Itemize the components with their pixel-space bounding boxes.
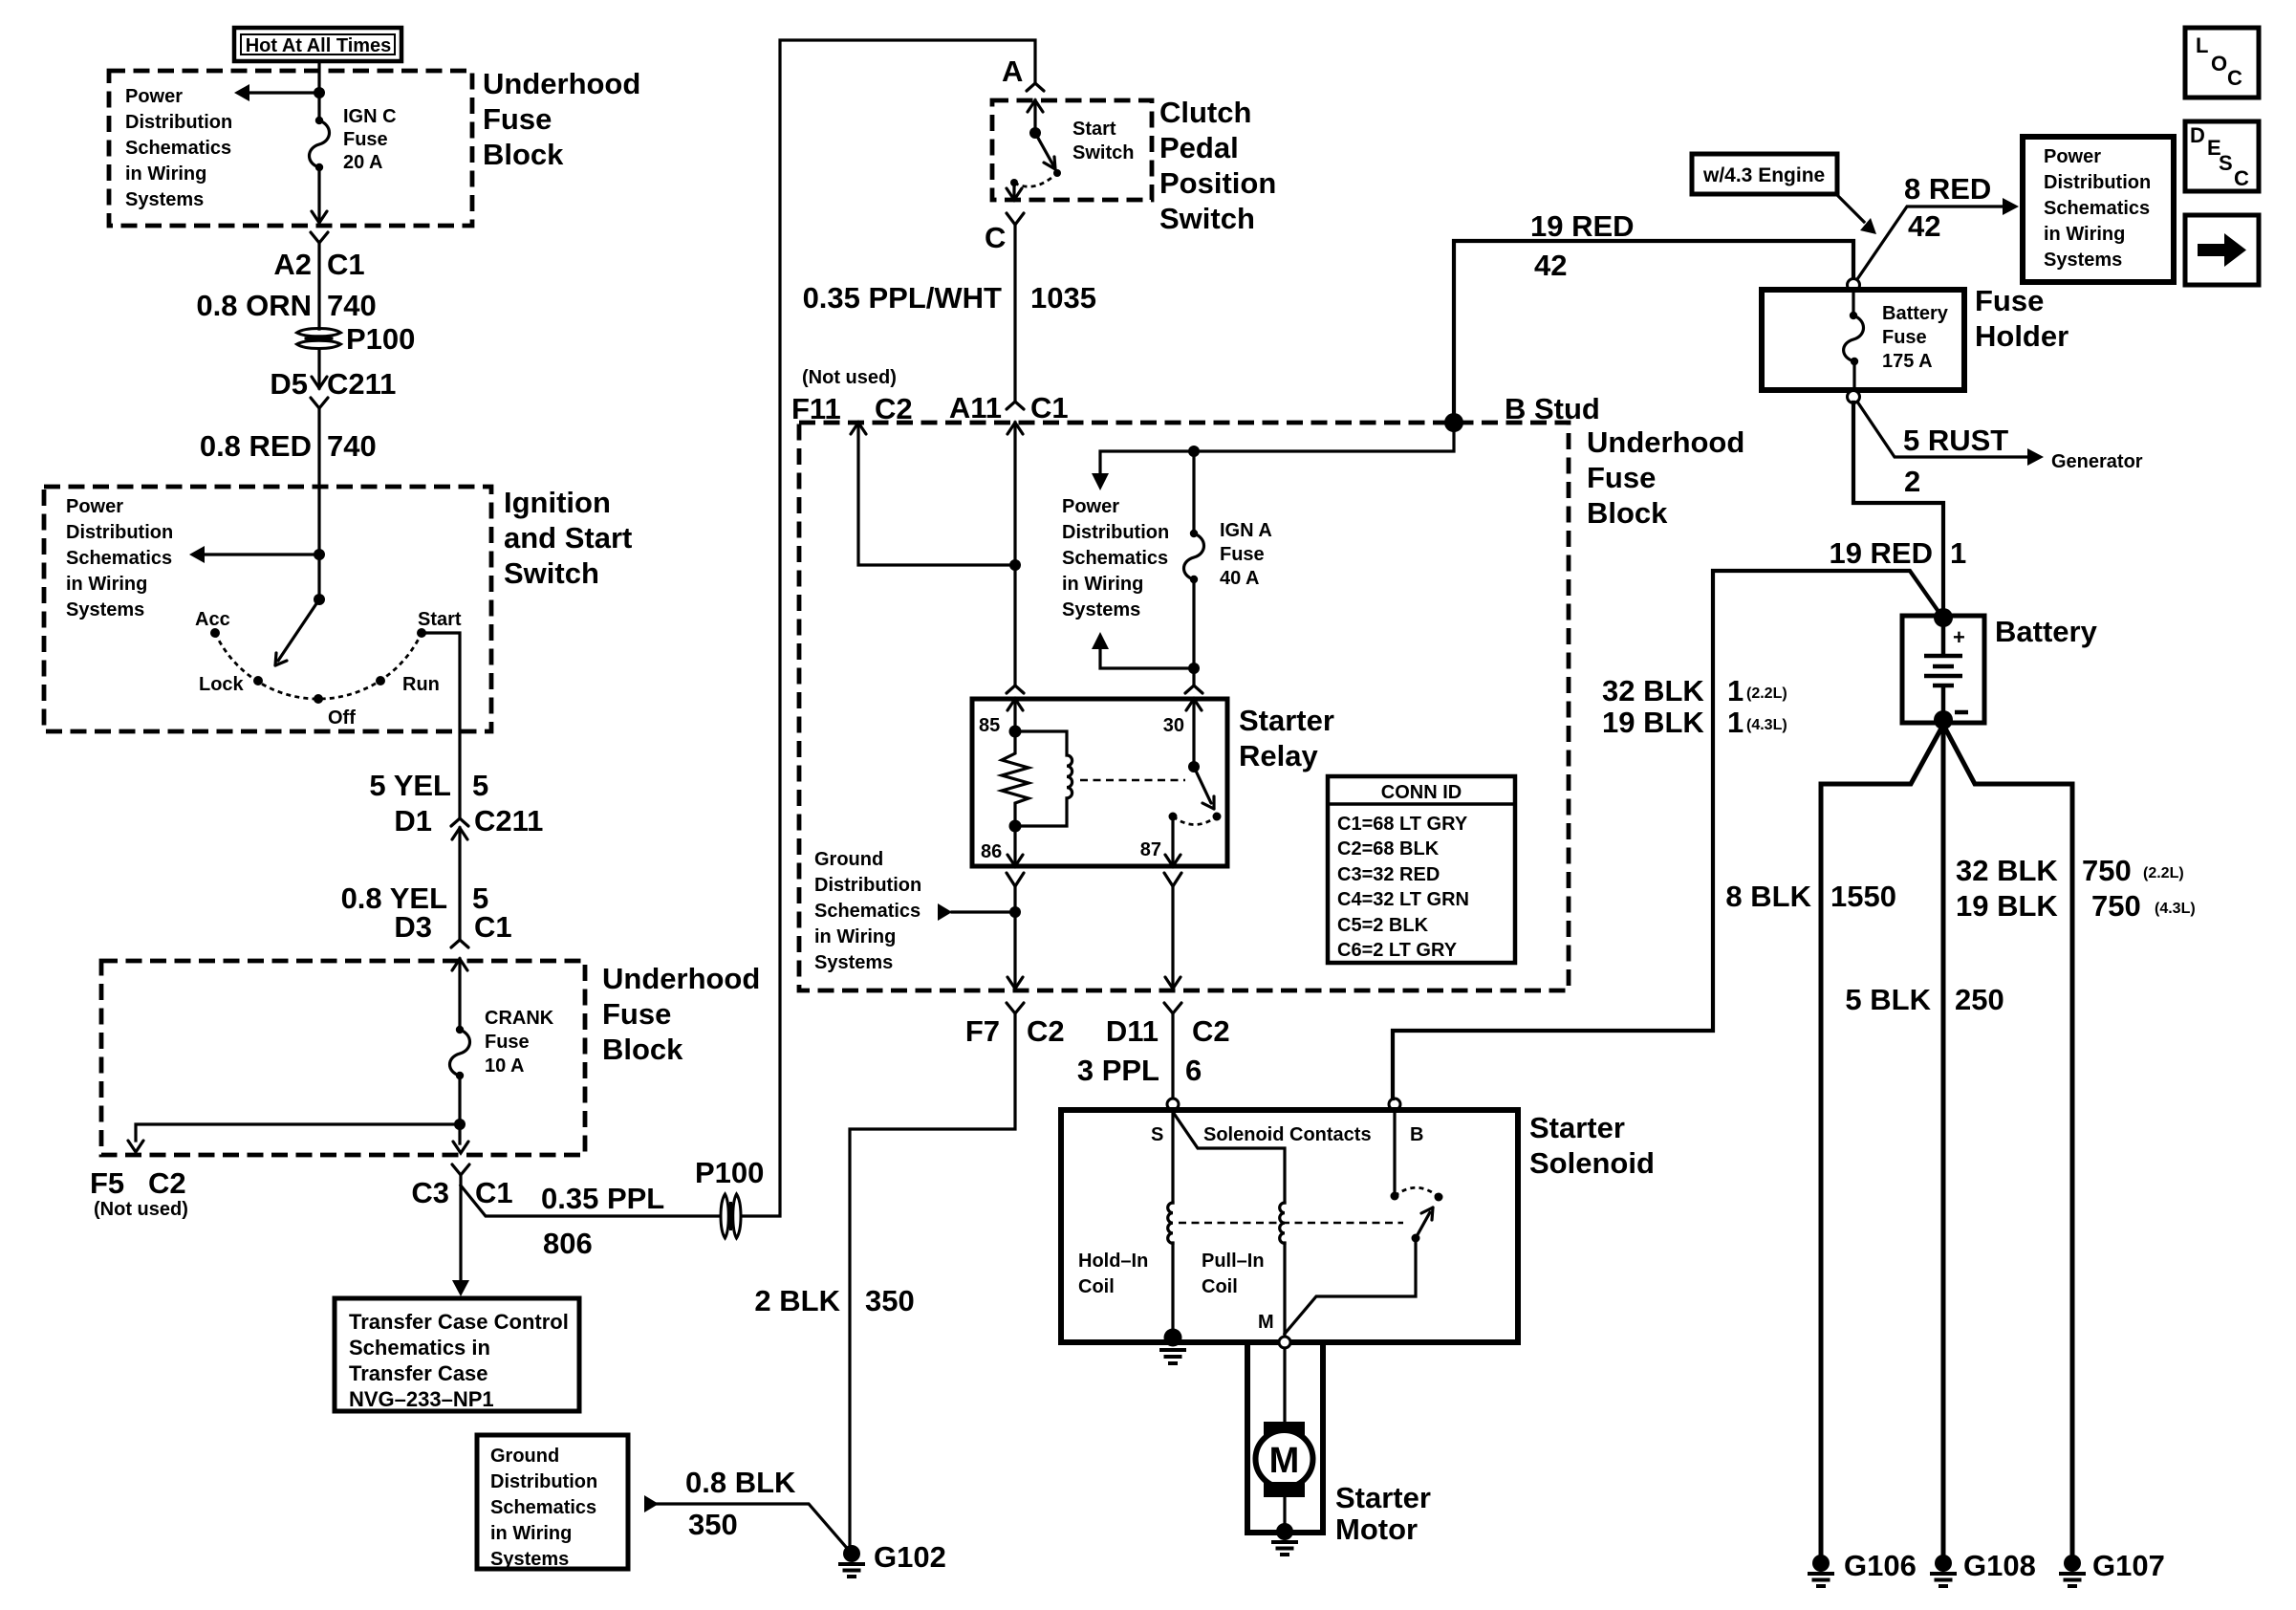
- svg-text:CRANK: CRANK: [485, 1008, 554, 1029]
- ground node starter motor: [1271, 1523, 1298, 1555]
- label 19 RED | 1: [1829, 536, 1966, 570]
- Ground Distribution Schematics note (main box): [814, 849, 921, 973]
- svg-text:Underhood: Underhood: [602, 962, 760, 995]
- wire fuse holder to battery positive: [1853, 402, 1943, 612]
- wire to power distribution arrow: [246, 91, 319, 94]
- svg-text:G106: G106: [1844, 1549, 1917, 1582]
- svg-text:32 BLK: 32 BLK: [1956, 854, 2058, 887]
- svg-text:Fuse: Fuse: [602, 997, 671, 1031]
- terminal fuse holder bottom: [1848, 391, 1860, 403]
- Underhood Fuse Block title: [483, 67, 640, 171]
- wire F11 branch: [858, 423, 1015, 565]
- node junction PDS up arrow: [1188, 663, 1200, 674]
- svg-text:Schematics: Schematics: [1062, 548, 1168, 569]
- svg-text:Solenoid: Solenoid: [1529, 1146, 1655, 1180]
- wire fuse to bottom terminal: [1852, 361, 1855, 390]
- svg-text:19 RED: 19 RED: [1530, 209, 1635, 243]
- wire junction to up arrow: [1100, 648, 1194, 668]
- wire battery negative to G106: [1821, 725, 1943, 1558]
- motor brush top: [1264, 1422, 1305, 1437]
- svg-text:42: 42: [1534, 249, 1567, 282]
- svg-text:C3=32 RED: C3=32 RED: [1337, 864, 1440, 885]
- start switch contact left: [1010, 179, 1018, 186]
- label Battery Fuse 175 A: [1882, 303, 1949, 372]
- fuse Battery 175 A: [1844, 312, 1864, 365]
- starter solenoid box: [1061, 1110, 1518, 1342]
- svg-text:(2.2L): (2.2L): [1746, 685, 1787, 702]
- svg-text:Underhood: Underhood: [1587, 425, 1744, 459]
- label IGN A Fuse 40 A: [1220, 520, 1272, 589]
- svg-text:C: C: [985, 221, 1006, 254]
- svg-text:and Start: and Start: [504, 521, 632, 555]
- power distribution schematics box (right): [2023, 137, 2174, 282]
- label 19 RED / 42: [1530, 209, 1635, 282]
- wire pin87 to box edge: [1171, 886, 1174, 986]
- label F7 | C2: [965, 1014, 1065, 1048]
- svg-text:Schematics in: Schematics in: [349, 1336, 490, 1360]
- label 0.8 RED | 740: [200, 429, 377, 463]
- svg-text:Holder: Holder: [1975, 319, 2069, 353]
- label A11 | C1: [949, 391, 1069, 424]
- ignition switch rotor arm with arrowhead: [275, 599, 319, 665]
- label box w/4.3 Engine: [1692, 154, 1837, 194]
- arrowhead 8 RED: [2003, 198, 2019, 215]
- switch contact Start: [417, 628, 426, 638]
- svg-text:Transfer Case: Transfer Case: [349, 1361, 488, 1385]
- label 0.35 PPL/WHT | 1035: [803, 281, 1096, 315]
- svg-text:Underhood: Underhood: [483, 67, 640, 100]
- arrowhead generator: [2027, 448, 2044, 466]
- svg-text:B Stud: B Stud: [1505, 392, 1600, 425]
- arrowhead to transfer case box: [452, 1280, 469, 1296]
- label Hold-In Coil: [1078, 1251, 1148, 1297]
- connector Y below relay pin 86: [1007, 873, 1024, 886]
- relay switch pivot: [1188, 761, 1200, 772]
- svg-text:(Not used): (Not used): [802, 367, 897, 388]
- svg-text:19 BLK: 19 BLK: [1956, 889, 2058, 923]
- underhood fuse block box 2 (dashed, CRANK): [101, 961, 585, 1155]
- start switch arm with arrowhead: [1035, 133, 1055, 169]
- wire contact to C exit (down arrow at edge): [1012, 183, 1015, 197]
- ground G102: [838, 1545, 865, 1577]
- svg-text:C211: C211: [474, 804, 543, 838]
- hold-in coil: [1168, 1203, 1173, 1243]
- solenoid contact left: [1391, 1192, 1399, 1201]
- node junction to power distribution arrow: [314, 87, 325, 98]
- connector A2/C1 at box edge (down arrow + Y): [311, 211, 328, 243]
- svg-text:Run: Run: [402, 674, 440, 695]
- svg-text:Distribution: Distribution: [2044, 172, 2151, 193]
- svg-text:C5=2 BLK: C5=2 BLK: [1337, 915, 1429, 936]
- svg-text:Clutch: Clutch: [1159, 96, 1251, 129]
- svg-text:Coil: Coil: [1078, 1276, 1115, 1297]
- svg-text:Ground: Ground: [490, 1446, 559, 1467]
- pin 30 arrow (up) and wire: [1186, 699, 1202, 710]
- svg-text:Pull–In: Pull–In: [1202, 1251, 1265, 1272]
- Power Distribution Schematics note (ignition): [66, 496, 173, 620]
- svg-text:42: 42: [1908, 209, 1940, 243]
- label 5 YEL | 5: [369, 769, 488, 802]
- svg-text:in Wiring: in Wiring: [1062, 574, 1143, 595]
- Underhood Fuse Block title 2: [602, 962, 760, 1066]
- wire splice up the left riser to clutch switch: [742, 40, 1035, 1216]
- svg-text:Power: Power: [1062, 496, 1119, 517]
- fuse holder box: [1762, 290, 1964, 390]
- ignition switch rotor pivot: [314, 594, 325, 605]
- svg-text:Distribution: Distribution: [814, 875, 921, 896]
- svg-text:Solenoid Contacts: Solenoid Contacts: [1203, 1124, 1372, 1145]
- svg-text:Distribution: Distribution: [1062, 522, 1169, 543]
- label 2 BLK | 350: [754, 1284, 914, 1317]
- Underhood Fuse Block title 3: [1587, 425, 1744, 530]
- svg-text:87: 87: [1140, 839, 1161, 860]
- svg-text:Systems: Systems: [66, 599, 144, 620]
- pull-in coil: [1280, 1203, 1285, 1243]
- svg-text:D1: D1: [394, 804, 432, 838]
- solenoid contact right: [1435, 1193, 1443, 1202]
- wire hold-in coil to case ground: [1171, 1243, 1174, 1334]
- wire splice to connector C211: [317, 349, 320, 388]
- splice P100 (vertical pill on horizontal wire): [721, 1194, 741, 1238]
- svg-text:5 YEL: 5 YEL: [369, 769, 451, 802]
- ground G106: [1808, 1555, 1834, 1586]
- ground symbol hold-in: [1159, 1350, 1186, 1363]
- wire fuse to connector C1: [317, 167, 320, 223]
- label 3 PPL | 6: [1077, 1054, 1202, 1087]
- terminal B: [1389, 1099, 1400, 1110]
- svg-text:C211: C211: [327, 367, 396, 401]
- wire motor to ground: [1283, 1497, 1286, 1530]
- svg-text:Fuse: Fuse: [1587, 461, 1656, 494]
- terminal M: [1279, 1337, 1290, 1348]
- svg-text:175 A: 175 A: [1882, 351, 1933, 372]
- wire 19 RED 1 to solenoid B feed: [1393, 571, 1941, 1099]
- wire S to hold-in coil: [1171, 1110, 1174, 1203]
- label D1 | C211: [394, 804, 543, 838]
- wire C211 to connector C1: [458, 828, 461, 940]
- svg-text:D5: D5: [270, 367, 308, 401]
- node junction F5 branch: [454, 1119, 466, 1130]
- dashed arc relay contacts: [1173, 816, 1217, 825]
- label - (minus): [1955, 710, 1968, 715]
- svg-text:(4.3L): (4.3L): [1746, 717, 1787, 733]
- wire 5 RUST to generator: [1857, 402, 2028, 457]
- svg-text:C1: C1: [475, 1176, 513, 1209]
- svg-text:D: D: [2190, 123, 2205, 147]
- svg-text:Fuse: Fuse: [485, 1032, 530, 1053]
- wire C211 into ignition switch: [317, 408, 320, 555]
- wire moving contact to M: [1285, 1238, 1416, 1334]
- node junction IGN A feed: [1188, 446, 1200, 457]
- svg-text:740: 740: [327, 289, 377, 322]
- wire C1 to splice P100: [317, 243, 320, 329]
- motor armature circle: [1256, 1430, 1313, 1488]
- svg-text:C4=32 LT GRN: C4=32 LT GRN: [1337, 889, 1469, 910]
- battery box: [1902, 616, 1984, 723]
- connector D11/C2 at box edge (down arrow + Y): [1164, 977, 1181, 1013]
- svg-text:Switch: Switch: [504, 556, 599, 590]
- wire 0.8 BLK to G102: [657, 1504, 852, 1554]
- svg-text:Starter: Starter: [1335, 1481, 1431, 1514]
- node pin85: [1009, 726, 1022, 738]
- wire B stud up and 19 RED across: [1454, 241, 1853, 423]
- svg-text:w/4.3 Engine: w/4.3 Engine: [1702, 164, 1825, 186]
- switch contact Off: [314, 694, 323, 704]
- svg-text:CONN ID: CONN ID: [1381, 782, 1462, 803]
- wire B to contact: [1393, 1110, 1396, 1192]
- svg-text:in Wiring: in Wiring: [125, 163, 206, 185]
- transfer case control box: [335, 1298, 579, 1411]
- LOC box: [2185, 28, 2259, 98]
- svg-text:C2: C2: [1027, 1014, 1065, 1048]
- svg-text:1: 1: [1950, 536, 1966, 570]
- svg-text:Systems: Systems: [1062, 599, 1140, 620]
- svg-text:C2=68 BLK: C2=68 BLK: [1337, 838, 1440, 859]
- svg-text:20 A: 20 A: [343, 152, 383, 173]
- svg-text:86: 86: [981, 841, 1002, 862]
- dashed detent arc: [215, 633, 422, 699]
- connector F11 arrow (up, not used): [851, 423, 866, 434]
- svg-text:Schematics: Schematics: [66, 548, 172, 569]
- pin 87 arrow (down): [1171, 816, 1174, 863]
- svg-text:740: 740: [327, 429, 377, 463]
- svg-text:+: +: [1953, 625, 1965, 649]
- wire 8 RED branch: [1855, 207, 2004, 282]
- Starter Relay title: [1239, 704, 1334, 772]
- relay contact right: [1213, 813, 1222, 821]
- arrowhead power distribution left (ignition): [189, 546, 205, 563]
- fuse IGN C 20 A: [310, 117, 330, 171]
- connector F7/C2 at box edge (down arrow + Y): [1007, 977, 1024, 1013]
- Starter Solenoid title: [1529, 1111, 1655, 1180]
- svg-text:Starter: Starter: [1239, 704, 1334, 737]
- wire F7 to G102 (2 BLK 350): [850, 1013, 1015, 1549]
- ignition and start switch box (dashed): [44, 487, 491, 731]
- svg-text:C1: C1: [327, 248, 365, 281]
- svg-text:19 RED: 19 RED: [1829, 536, 1933, 570]
- svg-text:Off: Off: [328, 707, 356, 729]
- clutch pedal position switch box (dashed): [992, 100, 1152, 200]
- svg-text:32 BLK: 32 BLK: [1602, 674, 1704, 707]
- label CRANK Fuse 10 A: [485, 1008, 554, 1077]
- switch contact Acc: [210, 628, 220, 638]
- node B Stud: [1444, 413, 1463, 432]
- node junction in ignition switch: [314, 549, 325, 560]
- wire battery negative to G108: [1941, 725, 1946, 1558]
- svg-text:Schematics: Schematics: [2044, 198, 2150, 219]
- wire pin86 to box edge: [1013, 886, 1016, 986]
- label F5 C2: [90, 1166, 186, 1200]
- svg-text:C: C: [2227, 66, 2242, 90]
- svg-text:M: M: [1269, 1441, 1300, 1481]
- svg-text:in Wiring: in Wiring: [814, 926, 896, 947]
- svg-text:Fuse: Fuse: [1975, 284, 2044, 317]
- svg-text:8 BLK: 8 BLK: [1725, 880, 1811, 913]
- wire into crank fuse: [458, 959, 461, 1030]
- label 5 BLK | 250: [1845, 983, 2004, 1016]
- svg-text:G102: G102: [874, 1540, 946, 1574]
- pointer from w/4.3 Engine box: [1837, 195, 1864, 222]
- svg-text:A11: A11: [949, 391, 1002, 424]
- wire C down to A11 connector: [1013, 225, 1016, 402]
- svg-text:P100: P100: [695, 1156, 764, 1189]
- terminal S: [1167, 1099, 1179, 1110]
- svg-text:250: 250: [1955, 983, 2004, 1016]
- svg-text:2: 2: [1904, 465, 1920, 498]
- svg-text:5 BLK: 5 BLK: [1845, 983, 1931, 1016]
- connector D5/C211 (down arrow + Y): [311, 377, 328, 408]
- svg-text:1: 1: [1727, 674, 1744, 707]
- dashed link coils to contacts: [1179, 1222, 1403, 1225]
- label IGN C Fuse 20 A: [343, 106, 397, 173]
- wire D11 to solenoid S: [1171, 1013, 1174, 1099]
- connector hat above relay pin 30: [1185, 685, 1202, 693]
- svg-text:in Wiring: in Wiring: [66, 574, 147, 595]
- wire junction to F5 drop: [136, 1124, 460, 1141]
- label D3 | C1: [394, 910, 511, 944]
- resistor (relay): [1002, 731, 1029, 826]
- svg-text:Distribution: Distribution: [66, 522, 173, 543]
- Starter Motor title: [1335, 1481, 1431, 1546]
- svg-text:S: S: [2219, 151, 2233, 175]
- svg-text:Start: Start: [1072, 119, 1116, 140]
- dashed arc solenoid contacts: [1395, 1187, 1439, 1197]
- svg-text:Power: Power: [2044, 146, 2101, 167]
- wire junction to rotor pivot: [317, 555, 320, 599]
- label D11 | C2: [1106, 1014, 1230, 1048]
- arrowhead from ground distribution box: [644, 1495, 659, 1512]
- start switch contact right: [1053, 169, 1061, 177]
- wire junction to IGN A fuse: [1192, 451, 1195, 533]
- label 0.35 PPL / 806: [541, 1182, 664, 1260]
- svg-text:O: O: [2211, 52, 2227, 76]
- label 0.8 BLK / 350: [685, 1466, 796, 1541]
- wire A into start switch: [1033, 100, 1036, 133]
- pin 85 arrow (up): [1007, 699, 1023, 710]
- CONN ID table: [1328, 776, 1515, 963]
- relay contact 87: [1169, 813, 1178, 821]
- label C3 | C1: [411, 1176, 512, 1209]
- svg-text:1035: 1035: [1030, 281, 1096, 315]
- svg-text:D3: D3: [394, 910, 432, 944]
- svg-text:350: 350: [688, 1508, 738, 1541]
- svg-text:A: A: [1002, 54, 1023, 88]
- svg-text:Switch: Switch: [1159, 202, 1255, 235]
- motor brush bottom: [1264, 1482, 1305, 1497]
- wire Start contact to box exit: [422, 633, 460, 818]
- label 0.8 ORN | 740: [196, 289, 376, 322]
- svg-text:M: M: [1258, 1312, 1274, 1333]
- svg-text:(4.3L): (4.3L): [2155, 901, 2196, 917]
- Ignition and Start Switch title: [504, 486, 632, 590]
- svg-text:0.35 PPL: 0.35 PPL: [541, 1182, 664, 1215]
- battery negative node: [1934, 710, 1953, 729]
- connector D3/C1 at crank box edge (hat + up arrow): [451, 940, 468, 970]
- svg-text:Relay: Relay: [1239, 739, 1318, 772]
- svg-text:Switch: Switch: [1072, 142, 1134, 163]
- Power Distribution Schematics note (main box): [1062, 496, 1169, 620]
- svg-text:3 PPL: 3 PPL: [1077, 1054, 1159, 1087]
- wire into battery fuse: [1852, 291, 1854, 315]
- svg-text:F5: F5: [90, 1166, 124, 1200]
- svg-text:Schematics: Schematics: [125, 138, 231, 159]
- svg-text:NVG–233–NP1: NVG–233–NP1: [349, 1387, 494, 1411]
- wire B stud feed inside box: [1100, 423, 1454, 472]
- svg-text:C: C: [2234, 166, 2249, 190]
- svg-text:Block: Block: [1587, 496, 1668, 530]
- svg-text:10 A: 10 A: [485, 1055, 525, 1077]
- svg-text:Battery: Battery: [1995, 615, 2098, 648]
- wire fuse to junction: [458, 1076, 461, 1143]
- connector A11/C1 at big box edge (hat + up arrow): [1007, 402, 1024, 434]
- label Pull-In Coil: [1202, 1251, 1265, 1297]
- svg-text:Fuse: Fuse: [1882, 327, 1927, 348]
- label F11 C2: [791, 392, 913, 425]
- svg-text:Hold–In: Hold–In: [1078, 1251, 1148, 1272]
- connector Y below relay pin 87: [1164, 873, 1181, 886]
- svg-text:Schematics: Schematics: [814, 901, 921, 922]
- ground G107: [2059, 1555, 2086, 1586]
- label D5 | C211: [270, 367, 396, 401]
- svg-text:Fuse: Fuse: [343, 129, 388, 150]
- svg-text:A2: A2: [273, 248, 312, 281]
- wire to power distribution arrow (ignition): [201, 553, 319, 555]
- svg-text:Block: Block: [483, 138, 564, 171]
- battery cells: [1924, 621, 1962, 717]
- label 5 RUST / 2: [1903, 424, 2008, 498]
- svg-text:Schematics: Schematics: [490, 1497, 596, 1518]
- wire to ground distribution arrow: [952, 910, 1015, 913]
- connector hat above relay pin 85: [1007, 685, 1024, 693]
- forward arrow box: [2185, 215, 2259, 285]
- svg-text:G108: G108: [1963, 1549, 2036, 1582]
- relay switch arm with arrowhead: [1194, 767, 1214, 809]
- fuse IGN A 40 A: [1184, 530, 1204, 583]
- svg-text:0.8 ORN: 0.8 ORN: [196, 289, 312, 322]
- svg-text:C1=68 LT GRY: C1=68 LT GRY: [1337, 814, 1468, 835]
- svg-text:1: 1: [1727, 706, 1744, 739]
- case ground node (hold-in): [1164, 1329, 1182, 1347]
- solenoid moving contact with arrowhead: [1412, 1207, 1434, 1243]
- splice P100 (horizontal pill on vertical wire): [297, 329, 341, 349]
- svg-text:Start: Start: [418, 609, 462, 630]
- arrowhead power distribution (down): [1092, 473, 1109, 490]
- svg-text:19 BLK: 19 BLK: [1602, 706, 1704, 739]
- svg-text:2 BLK: 2 BLK: [754, 1284, 840, 1317]
- svg-text:Ground: Ground: [814, 849, 883, 870]
- svg-text:Distribution: Distribution: [125, 112, 232, 133]
- svg-text:Position: Position: [1159, 166, 1276, 200]
- wire from Hot box to fuse: [317, 61, 320, 120]
- svg-text:C2: C2: [148, 1166, 186, 1200]
- svg-text:C2: C2: [1192, 1014, 1230, 1048]
- wire S branch to pull-in coil: [1173, 1112, 1285, 1203]
- Clutch Pedal Position Switch title: [1159, 96, 1276, 235]
- label Start Switch: [1072, 119, 1134, 163]
- arrowhead power distribution (up): [1092, 632, 1109, 649]
- svg-text:30: 30: [1163, 715, 1184, 736]
- svg-text:750: 750: [2091, 889, 2141, 923]
- svg-text:Generator: Generator: [2051, 451, 2143, 472]
- switch contact Lock: [253, 676, 263, 685]
- wire battery negative to G107: [1943, 725, 2072, 1558]
- svg-text:Ignition: Ignition: [504, 486, 611, 519]
- svg-text:0.8 RED: 0.8 RED: [200, 429, 312, 463]
- svg-text:D11: D11: [1106, 1014, 1159, 1048]
- label 8 BLK | 1550: [1725, 880, 1896, 913]
- label box "Hot At All Times": [234, 28, 401, 61]
- label 8 RED / 42: [1904, 172, 1991, 243]
